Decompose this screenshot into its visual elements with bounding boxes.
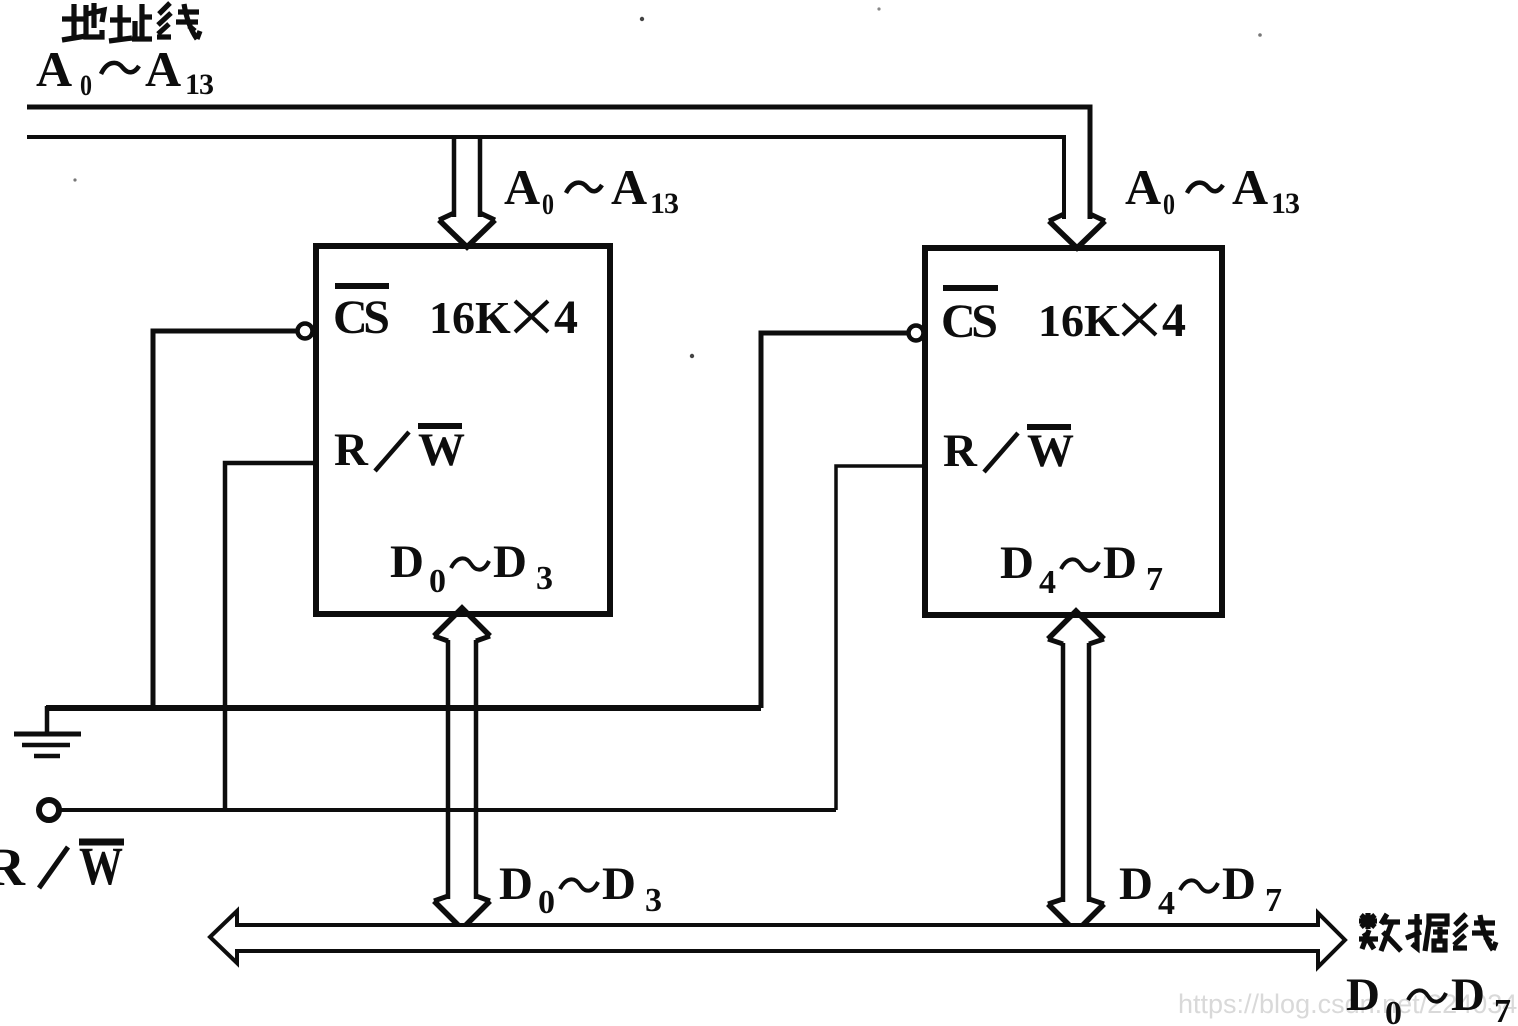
svg-text:D: D bbox=[1346, 969, 1380, 1021]
svg-text:0: 0 bbox=[542, 188, 554, 221]
svg-text:D: D bbox=[1222, 858, 1256, 910]
wire R/W rail bbox=[60, 808, 836, 812]
svg-text:W: W bbox=[418, 424, 465, 476]
svg-text:3: 3 bbox=[536, 560, 553, 597]
label A0~A13 top left bbox=[36, 41, 214, 102]
pin CS bubble U2 bbox=[909, 326, 924, 341]
svg-text:7: 7 bbox=[1265, 882, 1282, 919]
svg-text:0: 0 bbox=[1385, 995, 1402, 1026]
svg-text:D: D bbox=[499, 858, 533, 910]
svg-text:A: A bbox=[1125, 159, 1161, 215]
pin label D4~D7 U2 bbox=[1000, 537, 1163, 601]
svg-text:R: R bbox=[334, 424, 369, 476]
wire data bus (double headed hollow arrow) bbox=[210, 911, 1345, 967]
node data arrow U2 (bidirectional hollow) bbox=[1048, 611, 1104, 932]
svg-text:CS: CS bbox=[333, 291, 390, 344]
wire U2 R/W riser bbox=[836, 466, 925, 810]
pin CS bubble U1 bbox=[298, 324, 313, 339]
wire address bus line 2 bbox=[27, 137, 1064, 219]
svg-text:16K: 16K bbox=[429, 292, 511, 343]
svg-text:CS: CS bbox=[941, 295, 998, 348]
node address tap arrow into U1 (hollow down arrow) bbox=[439, 139, 495, 247]
svg-text:4: 4 bbox=[1158, 885, 1175, 922]
svg-text:D: D bbox=[1103, 537, 1137, 589]
memory chip U2 16Kx4 bbox=[925, 248, 1222, 615]
label data line CJK 数据线 bbox=[1359, 913, 1496, 951]
svg-text:16K: 16K bbox=[1038, 295, 1120, 346]
svg-text:0: 0 bbox=[80, 69, 92, 102]
label D0~D3 at bus bbox=[499, 858, 662, 921]
svg-text:D: D bbox=[602, 858, 636, 910]
svg-text:3: 3 bbox=[645, 882, 662, 919]
svg-text:A: A bbox=[1232, 159, 1268, 215]
svg-text:0: 0 bbox=[1163, 188, 1175, 221]
svg-text:D: D bbox=[493, 536, 527, 588]
label A0~A13 at U2 arrow bbox=[1125, 159, 1300, 221]
scan specks bbox=[73, 7, 1261, 358]
svg-text:R: R bbox=[0, 837, 26, 897]
wire U1 R/W riser bbox=[225, 463, 316, 810]
wire address bus line 1 bbox=[27, 107, 1090, 219]
svg-text:13: 13 bbox=[185, 68, 214, 101]
ground bbox=[14, 706, 81, 756]
svg-text:W: W bbox=[1027, 425, 1074, 477]
svg-text:D: D bbox=[390, 536, 424, 588]
pin label D0~D3 U1 bbox=[390, 536, 553, 600]
label address line CJK 地址线 bbox=[62, 3, 200, 41]
wire U2 CS riser bbox=[761, 333, 908, 708]
label A0~A13 at U1 arrow bbox=[504, 159, 679, 221]
svg-text:R: R bbox=[943, 425, 978, 477]
node R/W input terminal bbox=[39, 800, 59, 820]
pin label CS U1 with overline bbox=[335, 283, 389, 289]
label D4~D7 at bus bbox=[1119, 858, 1282, 922]
svg-text:A: A bbox=[504, 159, 540, 215]
svg-text:A: A bbox=[36, 41, 72, 97]
wire U1 CS to ground rail bbox=[153, 331, 296, 708]
node data arrow U1 (bidirectional hollow) bbox=[434, 608, 490, 929]
svg-text:4: 4 bbox=[1162, 294, 1186, 347]
svg-text:13: 13 bbox=[650, 187, 679, 220]
svg-text:13: 13 bbox=[1271, 187, 1300, 220]
pin label CS U2 with overline bbox=[943, 285, 998, 291]
svg-text:D: D bbox=[1451, 969, 1485, 1021]
memory chip U1 16Kx4 bbox=[316, 246, 610, 614]
svg-text:0: 0 bbox=[538, 884, 555, 921]
svg-text:4: 4 bbox=[1039, 564, 1056, 601]
svg-text:D: D bbox=[1119, 858, 1153, 910]
svg-text:7: 7 bbox=[1146, 561, 1163, 598]
svg-text:0: 0 bbox=[429, 563, 446, 600]
svg-text:A: A bbox=[145, 41, 181, 97]
label D0~D7 bottom right bbox=[1346, 969, 1511, 1026]
svg-text:4: 4 bbox=[554, 291, 578, 344]
svg-text:A: A bbox=[611, 159, 647, 215]
svg-text:D: D bbox=[1000, 537, 1034, 589]
node address arrow into U2 (hollow down arrow head) bbox=[1049, 214, 1105, 248]
svg-text:7: 7 bbox=[1494, 993, 1511, 1026]
wire ground rail bbox=[46, 705, 761, 711]
